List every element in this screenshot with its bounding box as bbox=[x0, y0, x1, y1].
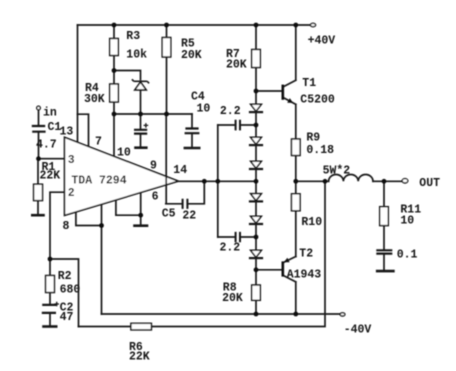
svg-text:+40V: +40V bbox=[308, 34, 336, 47]
svg-text:30K: 30K bbox=[84, 93, 105, 106]
svg-text:20K: 20K bbox=[181, 49, 202, 62]
svg-text:10k: 10k bbox=[126, 49, 147, 62]
svg-text:7: 7 bbox=[95, 136, 102, 149]
svg-text:C5: C5 bbox=[162, 207, 176, 220]
svg-text:OUT: OUT bbox=[419, 177, 440, 190]
svg-text:TDA 7294: TDA 7294 bbox=[71, 175, 126, 188]
svg-text:3: 3 bbox=[68, 154, 75, 167]
svg-text:9: 9 bbox=[150, 159, 157, 172]
svg-text:2.2: 2.2 bbox=[220, 241, 241, 254]
svg-text:0.1: 0.1 bbox=[397, 249, 418, 262]
svg-text:10: 10 bbox=[400, 215, 414, 228]
svg-text:R10: R10 bbox=[301, 216, 322, 229]
svg-text:R3: R3 bbox=[126, 30, 140, 43]
svg-text:10: 10 bbox=[117, 147, 131, 160]
svg-text:T1: T1 bbox=[302, 77, 316, 90]
svg-text:20K: 20K bbox=[222, 292, 243, 305]
svg-text:10: 10 bbox=[197, 103, 211, 116]
svg-text:22K: 22K bbox=[129, 350, 150, 363]
svg-text:4.7: 4.7 bbox=[36, 139, 57, 152]
svg-text:in: in bbox=[43, 107, 57, 120]
svg-text:22K: 22K bbox=[40, 170, 61, 183]
svg-text:R9: R9 bbox=[306, 132, 320, 145]
svg-text:2: 2 bbox=[68, 187, 75, 200]
svg-text:20K: 20K bbox=[226, 59, 247, 72]
svg-text:13: 13 bbox=[60, 126, 74, 139]
svg-text:C5200: C5200 bbox=[300, 94, 335, 107]
svg-text:6: 6 bbox=[152, 190, 159, 203]
svg-text:2.2: 2.2 bbox=[220, 105, 241, 118]
svg-text:T2: T2 bbox=[299, 248, 313, 261]
svg-text:0.18: 0.18 bbox=[306, 144, 334, 157]
svg-text:-40V: -40V bbox=[344, 324, 372, 337]
svg-text:8: 8 bbox=[63, 220, 70, 233]
svg-text:47: 47 bbox=[60, 311, 74, 324]
svg-text:22: 22 bbox=[182, 209, 196, 222]
svg-text:5W*2: 5W*2 bbox=[323, 164, 351, 177]
svg-text:R2: R2 bbox=[58, 270, 72, 283]
svg-text:14: 14 bbox=[173, 164, 187, 177]
svg-text:A1943: A1943 bbox=[287, 268, 322, 281]
svg-text:680: 680 bbox=[60, 284, 81, 297]
